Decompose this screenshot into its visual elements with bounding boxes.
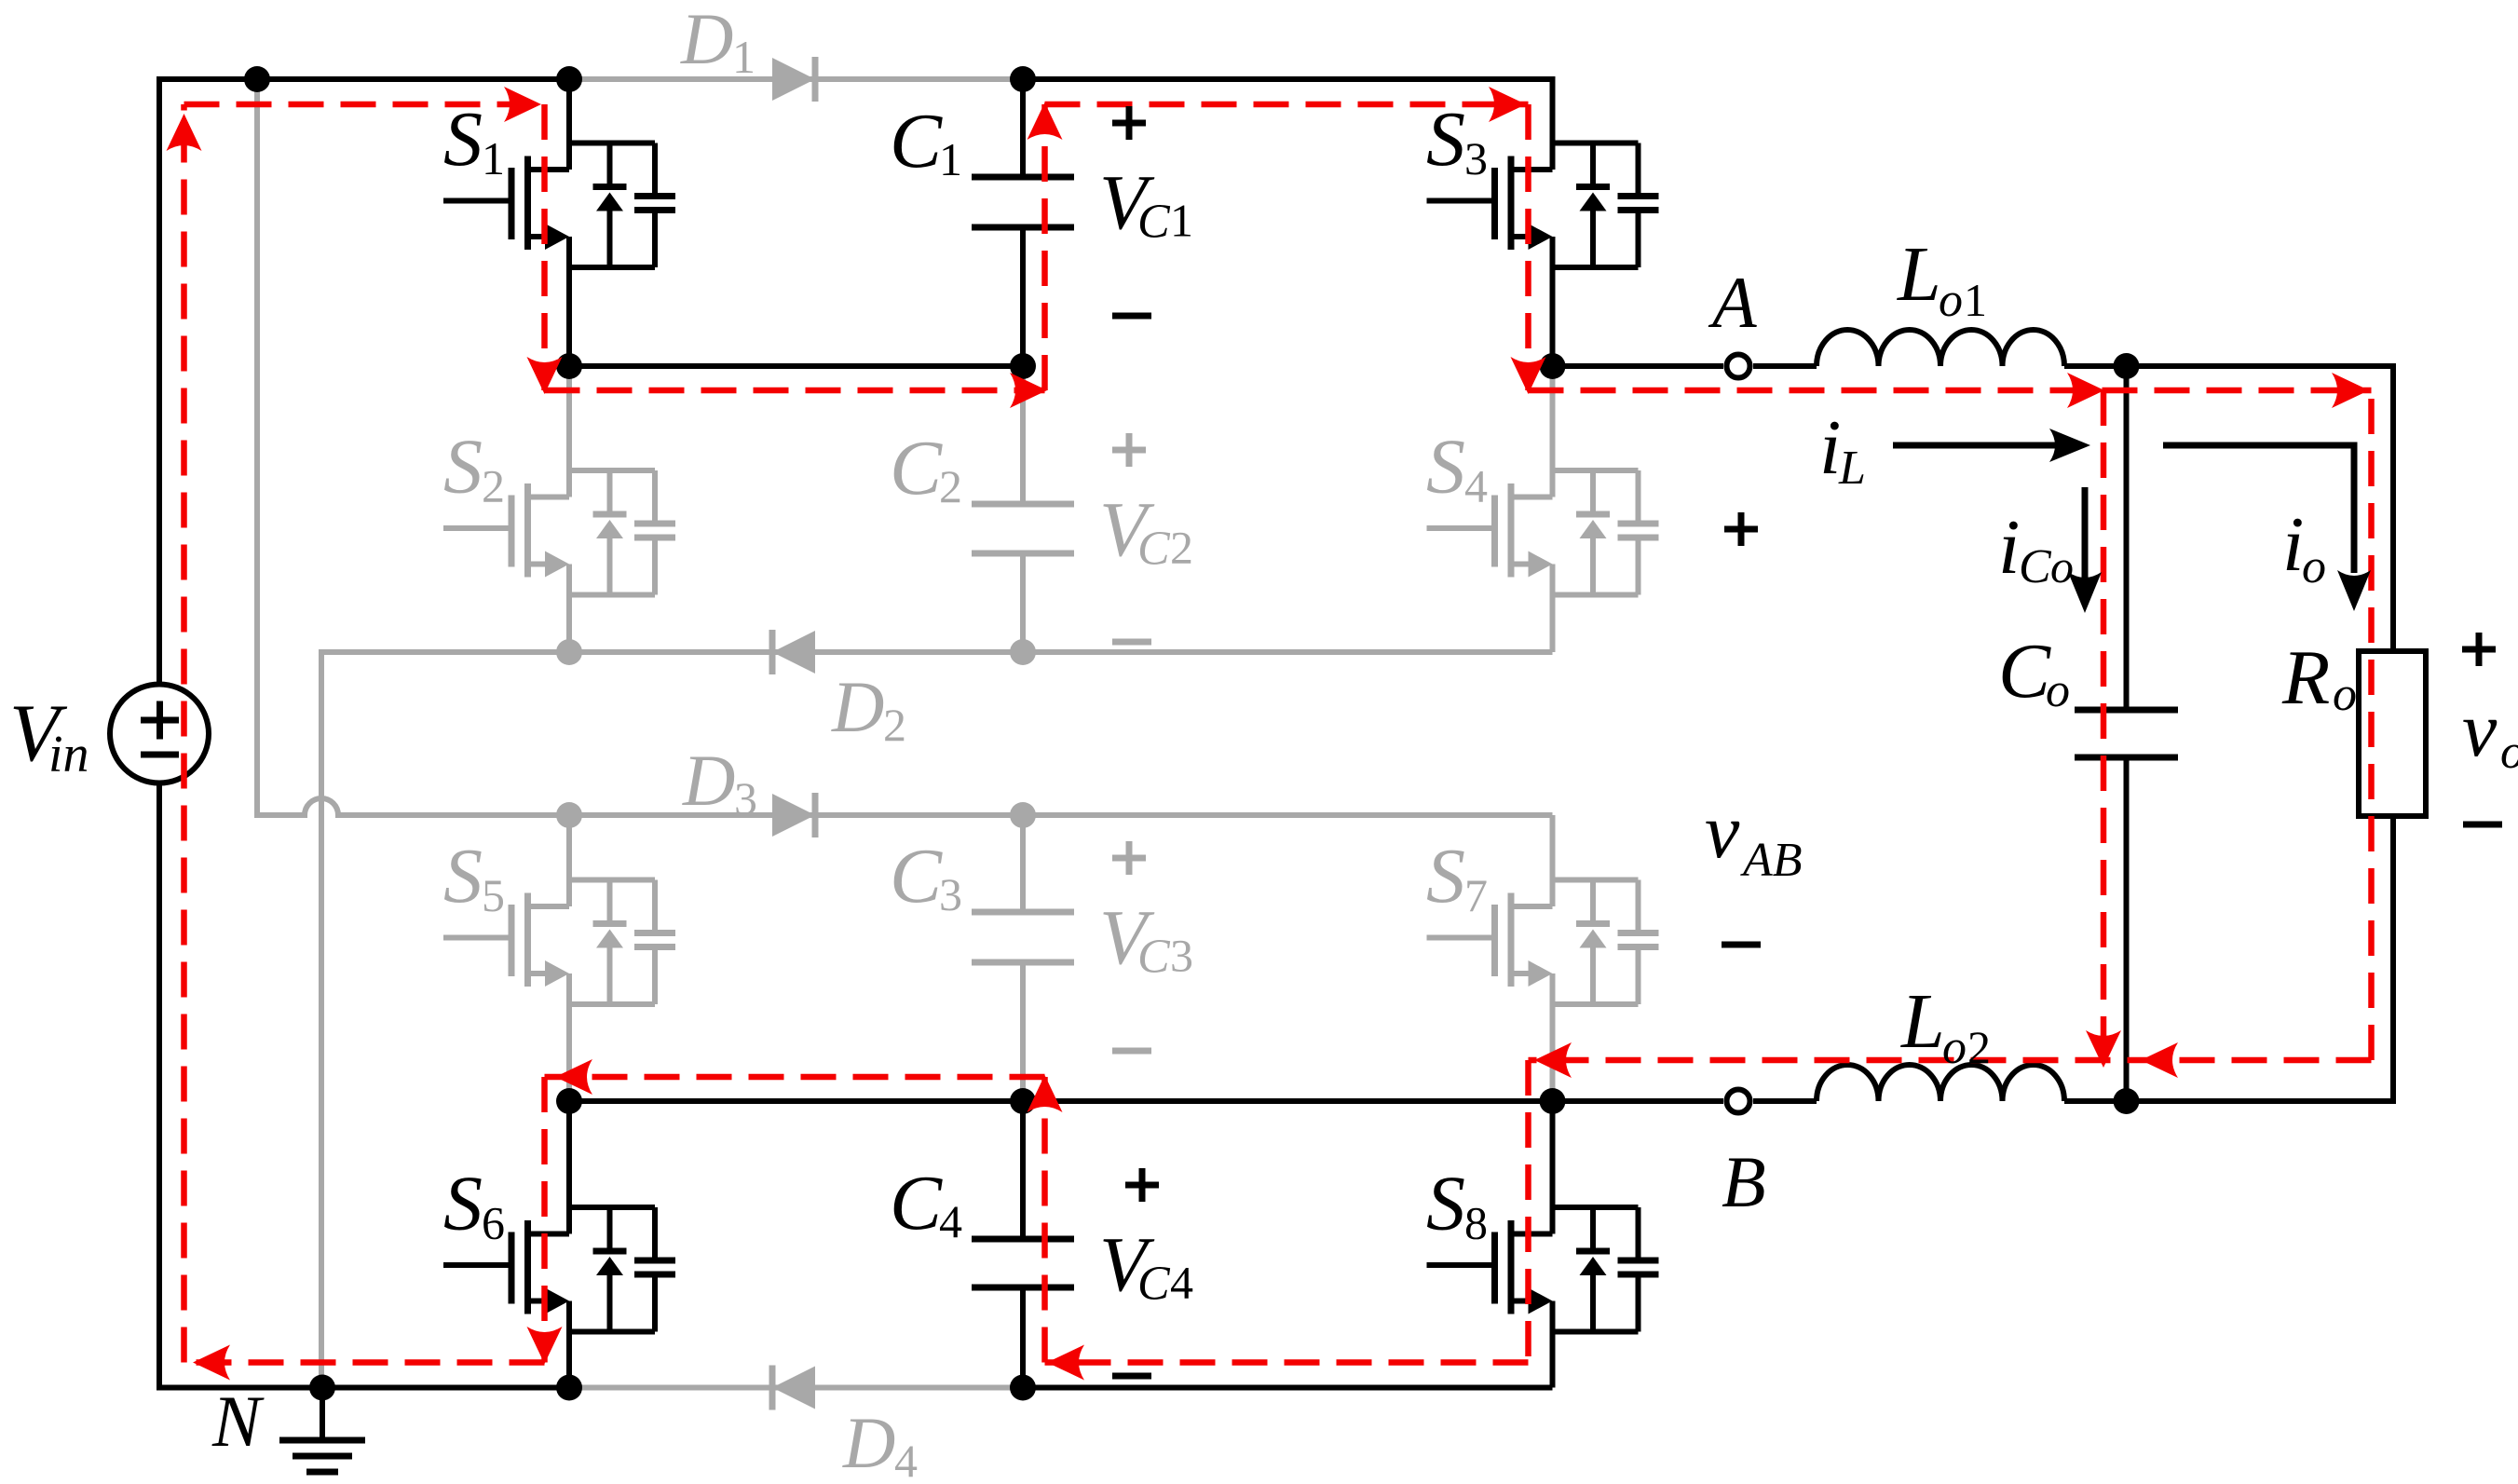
svg-text:A: A xyxy=(1708,262,1757,343)
svg-text:C: C xyxy=(1137,931,1171,984)
svg-text:6: 6 xyxy=(482,1197,505,1249)
svg-text:3: 3 xyxy=(1464,132,1488,184)
svg-text:C: C xyxy=(890,1160,943,1246)
svg-text:R: R xyxy=(2281,634,2330,721)
svg-text:1: 1 xyxy=(732,31,755,83)
svg-text:2: 2 xyxy=(939,460,962,512)
svg-text:C: C xyxy=(890,833,943,919)
svg-text:C: C xyxy=(1998,628,2051,715)
svg-text:o: o xyxy=(1942,1021,1967,1074)
svg-text:D: D xyxy=(680,0,733,79)
svg-text:C: C xyxy=(1137,196,1171,249)
svg-text:i: i xyxy=(1998,504,2020,591)
svg-text:B: B xyxy=(1722,1141,1766,1222)
svg-text:v: v xyxy=(1705,788,1740,875)
svg-text:1: 1 xyxy=(1964,274,1987,326)
svg-text:N: N xyxy=(211,1381,265,1462)
svg-text:2: 2 xyxy=(883,699,906,751)
svg-text:2: 2 xyxy=(1967,1021,1991,1073)
svg-text:v: v xyxy=(2462,687,2498,773)
svg-text:C: C xyxy=(890,98,943,184)
svg-text:o: o xyxy=(1939,274,1963,327)
svg-text:2: 2 xyxy=(482,460,505,512)
svg-text:i: i xyxy=(2282,501,2304,588)
svg-text:o: o xyxy=(2333,668,2357,721)
svg-text:1: 1 xyxy=(939,133,962,185)
svg-text:D: D xyxy=(682,740,735,821)
svg-text:5: 5 xyxy=(482,869,505,921)
svg-text:3: 3 xyxy=(734,772,757,824)
svg-text:D: D xyxy=(831,666,884,747)
svg-text:S: S xyxy=(443,833,483,919)
svg-text:3: 3 xyxy=(939,868,962,920)
svg-text:2: 2 xyxy=(1170,522,1193,574)
svg-text:L: L xyxy=(1838,442,1866,495)
svg-text:o: o xyxy=(2500,726,2518,779)
svg-text:1: 1 xyxy=(1170,195,1193,247)
svg-text:o: o xyxy=(2302,540,2326,593)
svg-text:AB: AB xyxy=(1740,834,1803,887)
svg-text:C: C xyxy=(2019,540,2052,593)
svg-text:i: i xyxy=(1819,404,1841,491)
svg-text:4: 4 xyxy=(1464,460,1488,512)
svg-text:S: S xyxy=(443,96,483,183)
svg-text:S: S xyxy=(443,1161,483,1247)
svg-text:in: in xyxy=(48,726,89,783)
svg-text:4: 4 xyxy=(939,1195,962,1247)
svg-text:C: C xyxy=(890,425,943,511)
svg-text:S: S xyxy=(443,424,483,511)
svg-text:S: S xyxy=(1426,96,1465,183)
svg-text:o: o xyxy=(2050,540,2074,592)
svg-text:4: 4 xyxy=(1170,1257,1193,1309)
svg-text:C: C xyxy=(1137,523,1171,576)
svg-text:S: S xyxy=(1426,1161,1465,1247)
svg-text:L: L xyxy=(1897,231,1941,318)
svg-text:D: D xyxy=(842,1402,895,1483)
svg-text:S: S xyxy=(1426,424,1465,511)
svg-text:S: S xyxy=(1426,833,1465,919)
svg-text:8: 8 xyxy=(1464,1197,1488,1249)
svg-text:7: 7 xyxy=(1464,869,1488,921)
svg-text:C: C xyxy=(1137,1258,1171,1311)
svg-text:4: 4 xyxy=(894,1435,918,1484)
svg-text:1: 1 xyxy=(482,132,505,184)
svg-text:o: o xyxy=(2046,664,2070,717)
svg-text:3: 3 xyxy=(1170,930,1193,982)
svg-text:L: L xyxy=(1900,978,1945,1065)
